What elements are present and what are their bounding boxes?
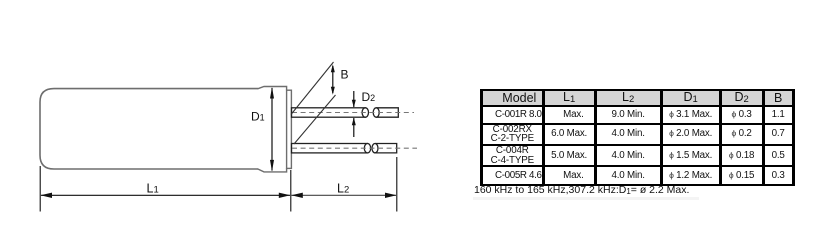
svg-text:L2: L2	[337, 182, 349, 196]
svg-text:B: B	[341, 68, 349, 82]
svg-text:D2: D2	[362, 90, 376, 104]
svg-text:D1: D1	[251, 110, 265, 124]
svg-text:L1: L1	[147, 182, 159, 196]
